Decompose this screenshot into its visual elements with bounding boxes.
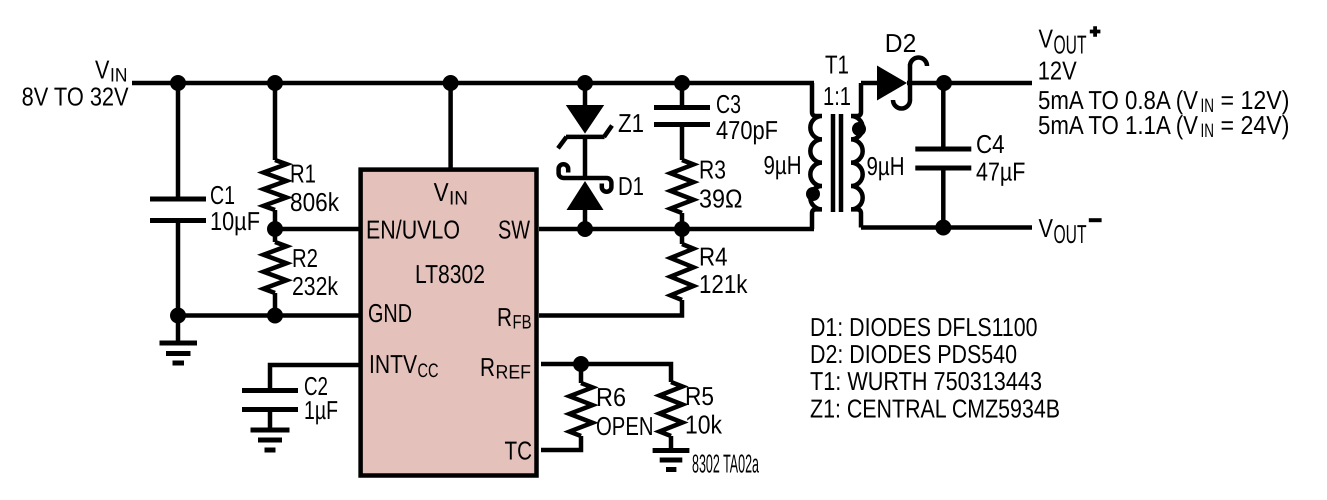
svg-text:= 24V): = 24V) — [1221, 110, 1290, 140]
svg-text:V: V — [434, 177, 450, 207]
svg-text:LT8302: LT8302 — [415, 259, 485, 289]
svg-text:Z1: CENTRAL CMZ5934B: Z1: CENTRAL CMZ5934B — [810, 394, 1060, 424]
svg-text:INTV: INTV — [369, 349, 418, 379]
svg-text:121k: 121k — [699, 269, 748, 299]
svg-text:1µF: 1µF — [304, 395, 338, 425]
svg-text:V: V — [1039, 24, 1054, 54]
svg-text:CC: CC — [418, 360, 439, 382]
svg-text:10µF: 10µF — [210, 206, 260, 236]
svg-text:10k: 10k — [685, 410, 723, 440]
svg-text:1:1: 1:1 — [823, 81, 851, 111]
svg-text:R: R — [480, 352, 495, 382]
svg-text:GND: GND — [368, 298, 412, 328]
svg-text:D1: D1 — [618, 171, 644, 201]
svg-text:IN: IN — [449, 188, 468, 210]
svg-text:R: R — [497, 302, 512, 332]
svg-text:R2: R2 — [292, 243, 318, 273]
svg-text:39Ω: 39Ω — [699, 184, 743, 214]
svg-text:12V: 12V — [1038, 56, 1078, 86]
svg-text:TC: TC — [505, 436, 533, 466]
svg-text:V: V — [1039, 213, 1054, 243]
svg-text:47µF: 47µF — [976, 157, 1025, 187]
svg-text:C4: C4 — [976, 129, 1005, 159]
svg-text:R3: R3 — [699, 155, 726, 185]
svg-text:5mA TO 1.1A (V: 5mA TO 1.1A (V — [1038, 110, 1199, 140]
svg-text:R4: R4 — [699, 242, 728, 272]
svg-text:SW: SW — [498, 215, 530, 245]
svg-text:9µH: 9µH — [867, 151, 905, 181]
svg-text:D1: DIODES DFLS1100: D1: DIODES DFLS1100 — [810, 312, 1038, 342]
svg-text:Z1: Z1 — [618, 108, 644, 138]
svg-text:8V TO 32V: 8V TO 32V — [22, 82, 130, 112]
svg-text:IN: IN — [1201, 95, 1215, 117]
svg-text:FB: FB — [513, 312, 532, 334]
svg-text:EN/UVLO: EN/UVLO — [366, 215, 460, 245]
svg-text:T1: WURTH 750313443: T1: WURTH 750313443 — [810, 366, 1042, 396]
svg-text:R5: R5 — [685, 381, 714, 411]
svg-text:806k: 806k — [290, 187, 340, 217]
svg-text:D2: D2 — [885, 28, 917, 58]
svg-text:R1: R1 — [290, 159, 316, 189]
svg-text:R6: R6 — [596, 382, 626, 412]
svg-text:9µH: 9µH — [764, 150, 802, 180]
svg-text:OUT: OUT — [1054, 219, 1087, 249]
svg-text:IN: IN — [1201, 120, 1215, 142]
svg-text:V: V — [95, 55, 110, 85]
svg-text:8302 TA02a: 8302 TA02a — [692, 449, 759, 479]
svg-text:T1: T1 — [825, 50, 849, 80]
svg-text:D2: DIODES PDS540: D2: DIODES PDS540 — [810, 339, 1017, 369]
svg-text:REF: REF — [496, 362, 532, 384]
svg-text:470pF: 470pF — [716, 115, 778, 145]
svg-text:OPEN: OPEN — [596, 411, 654, 441]
svg-text:232k: 232k — [292, 271, 339, 301]
